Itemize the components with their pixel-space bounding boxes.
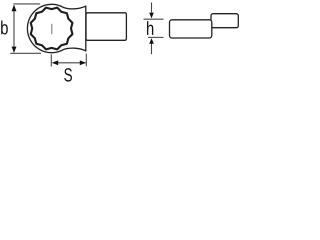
ring head outline (front view) <box>27 4 85 52</box>
label S <box>64 68 72 81</box>
label b <box>1 21 8 35</box>
dimension b arrowhead up <box>12 5 17 11</box>
dimension h extension line top <box>144 18 164 20</box>
tang end block (side view, behind) <box>211 14 238 28</box>
dimension S arrowhead left <box>52 60 58 65</box>
tang bar (front view) <box>86 13 126 41</box>
dimension b arrowhead down <box>12 47 17 53</box>
dimension h top arrowhead down <box>149 13 154 19</box>
dimension h bottom arrowhead up <box>149 38 154 44</box>
dimension S arrowhead right <box>80 60 86 65</box>
tool bar (side view) <box>170 20 212 38</box>
dimension b extension line top <box>13 3 40 5</box>
dimension b extension line bottom <box>10 52 41 54</box>
dimension S arrow line <box>53 62 86 64</box>
label h <box>147 21 153 35</box>
dimension h extension line bottom <box>148 36 164 38</box>
center mark <box>51 24 53 34</box>
dimension h top arrow line <box>151 3 153 13</box>
dimension b arrow line <box>13 5 15 52</box>
12-point ring profile <box>31 8 73 50</box>
dimension h bottom arrow line <box>151 43 153 54</box>
dimension S extension line left <box>50 54 52 66</box>
dimension S extension line right <box>85 54 87 67</box>
